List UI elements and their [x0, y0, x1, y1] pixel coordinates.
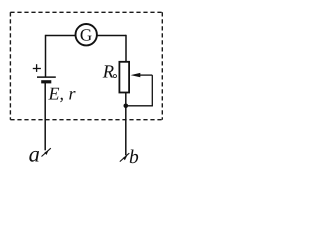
wire: left branch vertical (battery - plate down to terminal a) — [44, 82, 46, 150]
junction node (dot) — [124, 104, 129, 109]
wire: right branch vertical (rheostat bottom to terminal b) — [125, 93, 127, 155]
wiper arrow of R0 — [131, 73, 153, 77]
svg-text:E, r: E, r — [48, 84, 77, 104]
wire: left branch vertical (top corner down to battery + plate) — [45, 35, 47, 77]
wire: top horizontal (battery top to rheostat top, through G) — [46, 35, 127, 37]
svg-text:a: a — [29, 142, 40, 167]
enclosure: dashed black-box boundary — [10, 12, 162, 119]
polarity mark + — [33, 64, 41, 72]
terminal b probe arrow — [120, 153, 130, 162]
svg-text:G: G — [80, 25, 92, 44]
svg-text:b: b — [129, 147, 139, 168]
svg-text:R: R — [102, 62, 114, 82]
battery E,r : short thick negative plate — [41, 80, 51, 83]
battery E,r : long thin positive plate — [37, 76, 56, 78]
terminal a probe arrow — [42, 148, 51, 156]
wire: wiper tail down to bottom node — [151, 75, 153, 106]
rheostat R0 body — [119, 62, 129, 93]
wire: right branch vertical (top corner down to rheostat top) — [125, 35, 127, 62]
galvanometer G — [76, 24, 97, 45]
wire: bottom node horizontal to junction — [126, 105, 153, 107]
